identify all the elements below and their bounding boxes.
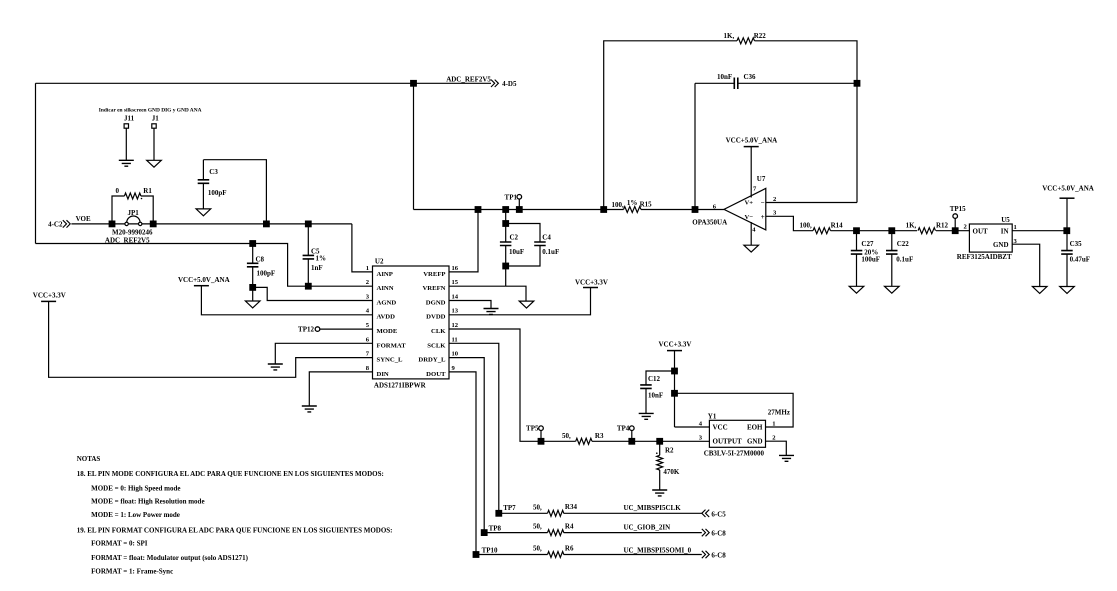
wire: vertical from top wire to reference rail bbox=[413, 83, 415, 209]
node: TP8 bbox=[481, 529, 488, 536]
svg-text:1: 1 bbox=[1014, 224, 1017, 231]
node: C5 bottom on AINN wire bbox=[305, 283, 312, 290]
node: C2/C4 bottom join bbox=[502, 263, 509, 270]
pin 2 inverting input wire bbox=[766, 202, 857, 204]
wire: VCC to Y1 pin 4 bbox=[674, 351, 676, 427]
node: TP10 bbox=[473, 551, 480, 558]
svg-text:1%: 1% bbox=[627, 199, 638, 207]
pin 1 IN wire bbox=[1012, 230, 1067, 232]
svg-text:4-C2: 4-C2 bbox=[48, 220, 63, 228]
svg-text:TP1: TP1 bbox=[505, 194, 518, 202]
svg-text:1nF: 1nF bbox=[311, 264, 323, 272]
node: R22/R15 junction bbox=[600, 206, 607, 213]
ground for C12 bbox=[639, 413, 654, 419]
resistor R3 50 bbox=[576, 438, 592, 444]
svg-text:50,: 50, bbox=[533, 545, 542, 553]
svg-text:MODE = 1: Low Power mode: MODE = 1: Low Power mode bbox=[91, 511, 180, 519]
svg-text:J11: J11 bbox=[124, 114, 135, 122]
ground for C27 bbox=[849, 286, 864, 293]
wire: VOE net horizontal bbox=[71, 223, 352, 225]
svg-text:VCC+5.0V_ANA: VCC+5.0V_ANA bbox=[726, 137, 778, 145]
svg-text:DGND: DGND bbox=[426, 300, 446, 307]
test point TP1 bbox=[517, 195, 522, 200]
svg-text:1K,: 1K, bbox=[906, 222, 917, 230]
resistor R4 50 bbox=[548, 530, 564, 536]
svg-text:15: 15 bbox=[452, 279, 459, 286]
svg-text:V+: V+ bbox=[745, 200, 754, 207]
node: TP4 tap on CLK wire bbox=[628, 438, 635, 445]
svg-text:DIN: DIN bbox=[377, 371, 389, 378]
svg-text:C12: C12 bbox=[648, 375, 661, 383]
svg-text:CB3LV-5I-27M0000: CB3LV-5I-27M0000 bbox=[704, 449, 765, 457]
node: VREFP tap on reference rail bbox=[475, 206, 482, 213]
svg-text:GND: GND bbox=[747, 438, 763, 446]
wire: SCLK to UC_MIBSPI5CLK bbox=[449, 343, 702, 513]
svg-text:TP12: TP12 bbox=[298, 326, 314, 334]
svg-text:R6: R6 bbox=[565, 545, 574, 553]
ground for VREFN bbox=[519, 301, 534, 308]
svg-text:470K: 470K bbox=[663, 468, 680, 476]
svg-text:50,: 50, bbox=[533, 523, 542, 531]
wire: VREFN to ground bbox=[506, 286, 526, 301]
svg-text:100,: 100, bbox=[800, 222, 813, 230]
svg-text:SYNC_L: SYNC_L bbox=[377, 357, 404, 364]
node: EOH tap on VCC stem bbox=[671, 390, 678, 397]
ground (GND DIG) for J11 bbox=[119, 160, 134, 166]
svg-text:−: − bbox=[761, 199, 765, 207]
node: TP5 tap on CLK wire bbox=[538, 438, 545, 445]
svg-text:100,: 100, bbox=[612, 201, 625, 209]
svg-text:TP5: TP5 bbox=[526, 425, 539, 433]
svg-text:DVDD: DVDD bbox=[426, 314, 445, 321]
svg-text:UC_GIOB_2IN: UC_GIOB_2IN bbox=[624, 524, 671, 532]
svg-text:10nF: 10nF bbox=[717, 73, 732, 81]
svg-text:C35: C35 bbox=[1070, 240, 1083, 248]
svg-text:U2: U2 bbox=[375, 258, 384, 266]
svg-text:13: 13 bbox=[452, 308, 459, 315]
node: C22 tap bbox=[888, 227, 895, 234]
node: R2 tap on CLK wire bbox=[656, 438, 663, 445]
op-amp U7 OPA350UA bbox=[724, 188, 766, 230]
svg-text:0.47uF: 0.47uF bbox=[1070, 256, 1090, 264]
svg-text:MODE: MODE bbox=[377, 328, 398, 335]
svg-text:100uF: 100uF bbox=[861, 255, 880, 263]
node: C2/C4 tap on reference rail bbox=[502, 206, 509, 213]
svg-text:C2: C2 bbox=[510, 233, 519, 241]
svg-text:VCC+3.3V: VCC+3.3V bbox=[33, 292, 66, 300]
IC U2 ADS1271IBPWR bbox=[373, 266, 450, 379]
svg-text:6-C5: 6-C5 bbox=[711, 510, 726, 518]
wire: VREFN bbox=[449, 285, 506, 287]
svg-text:18. EL PIN MODE CONFIGURA EL A: 18. EL PIN MODE CONFIGURA EL ADC PARA QU… bbox=[77, 470, 384, 478]
svg-text:TP10: TP10 bbox=[482, 547, 498, 555]
wire: DRDY_L to UC_GIOB_2IN bbox=[449, 358, 702, 533]
ground for C35 bbox=[1060, 287, 1075, 294]
svg-text:FORMAT = 0: SPI: FORMAT = 0: SPI bbox=[91, 540, 148, 548]
resistor R6 50 bbox=[548, 552, 564, 558]
test point TP5 bbox=[539, 426, 544, 431]
svg-text:R14: R14 bbox=[831, 222, 844, 230]
svg-text:C4: C4 bbox=[542, 233, 551, 241]
svg-text:TP7: TP7 bbox=[503, 504, 516, 512]
svg-text:11: 11 bbox=[452, 336, 458, 343]
resistor R12 1K bbox=[918, 228, 936, 234]
svg-text:1: 1 bbox=[772, 421, 775, 428]
svg-text:DOUT: DOUT bbox=[426, 371, 446, 378]
svg-text:10nF: 10nF bbox=[648, 391, 663, 399]
svg-text:C3: C3 bbox=[209, 168, 218, 176]
svg-text:U5: U5 bbox=[1001, 216, 1010, 224]
svg-text:R22: R22 bbox=[754, 32, 767, 40]
svg-text:1%: 1% bbox=[316, 255, 327, 263]
svg-text:GND: GND bbox=[993, 241, 1009, 249]
svg-text:OUTPUT: OUTPUT bbox=[713, 438, 743, 446]
svg-text:EOH: EOH bbox=[747, 424, 763, 432]
svg-text:10uF: 10uF bbox=[509, 248, 524, 256]
wire: SYNC_L to VCC+3.3V bbox=[49, 301, 373, 377]
svg-text:SCLK: SCLK bbox=[427, 342, 446, 349]
svg-text:100pF: 100pF bbox=[257, 270, 276, 278]
svg-text:OUT: OUT bbox=[973, 227, 989, 235]
wire: DVDD to VCC+3.3V bbox=[449, 288, 591, 315]
svg-text:R15: R15 bbox=[640, 201, 653, 209]
svg-text:VOE: VOE bbox=[76, 215, 91, 223]
test point TP4 bbox=[630, 426, 635, 431]
ground for R2 bbox=[652, 490, 667, 496]
svg-text:TP8: TP8 bbox=[489, 524, 502, 532]
svg-text:R3: R3 bbox=[595, 432, 604, 440]
svg-text:CLK: CLK bbox=[431, 328, 446, 335]
test point TP15 bbox=[953, 214, 958, 219]
svg-text:TP15: TP15 bbox=[950, 205, 966, 213]
svg-text:AGND: AGND bbox=[377, 300, 397, 307]
node: C27 tap bbox=[853, 227, 860, 234]
svg-text:VREFP: VREFP bbox=[423, 271, 445, 278]
wire: DIN to ground bbox=[309, 372, 372, 406]
wire: C8 to AGND pin bbox=[253, 287, 373, 300]
capacitor C35 0.47uF bbox=[1066, 231, 1068, 287]
pin 6 output wire bbox=[695, 209, 724, 211]
wire: EOH net bbox=[675, 393, 794, 427]
svg-text:1: 1 bbox=[366, 265, 369, 272]
svg-text:DRDY_L: DRDY_L bbox=[418, 357, 446, 364]
svg-text:VREFN: VREFN bbox=[422, 285, 445, 292]
svg-text:R4: R4 bbox=[565, 523, 574, 531]
node: ADC_REF2V5 tap on top wire bbox=[410, 80, 417, 87]
wire: CLK net to oscillator bbox=[449, 329, 709, 441]
svg-text:16: 16 bbox=[452, 265, 459, 272]
node: TP1 tap on reference rail bbox=[516, 206, 523, 213]
svg-text:ADS1271IBPWR: ADS1271IBPWR bbox=[374, 381, 427, 389]
pin 3 non-inverting input wire bbox=[766, 216, 813, 230]
capacitor C12 10nF bbox=[646, 371, 675, 413]
wire: left vertical of ADC_REF2V5 net bbox=[35, 83, 37, 243]
svg-text:FORMAT = float: Modulator outp: FORMAT = float: Modulator output (solo A… bbox=[91, 554, 248, 562]
wire: lower ADC_REF2V5 to AINN bbox=[36, 244, 373, 287]
svg-text:VCC+5.0V_ANA: VCC+5.0V_ANA bbox=[1042, 185, 1094, 193]
wire: MODE pin bbox=[320, 328, 373, 330]
svg-text:VCC+5.0V_ANA: VCC+5.0V_ANA bbox=[178, 276, 230, 284]
svg-text:100pF: 100pF bbox=[208, 189, 227, 197]
svg-text:VCC+3.3V: VCC+3.3V bbox=[575, 279, 608, 287]
svg-text:OPA350UA: OPA350UA bbox=[692, 218, 727, 226]
svg-text:AINP: AINP bbox=[377, 271, 393, 278]
svg-text:12: 12 bbox=[452, 322, 459, 329]
svg-text:0: 0 bbox=[116, 187, 120, 195]
node: C3 branch on VOE wire bbox=[263, 221, 270, 228]
svg-text:50,: 50, bbox=[533, 503, 542, 511]
svg-text:Indicar en silkscreen GND DIG: Indicar en silkscreen GND DIG y GND ANA bbox=[99, 107, 202, 113]
svg-text:C8: C8 bbox=[256, 256, 265, 264]
svg-text:VCC: VCC bbox=[713, 424, 728, 432]
resistor R34 50 bbox=[548, 510, 564, 516]
wire: R22 feedback loop bbox=[604, 41, 857, 210]
ground for Y1 bbox=[779, 455, 794, 461]
ground for U5 GND bbox=[1032, 287, 1047, 294]
ground for DGND bbox=[484, 309, 499, 315]
capacitor C4 0.1uF bbox=[506, 224, 540, 267]
capacitor C2 10uF bbox=[505, 210, 507, 287]
svg-text:MODE = 0: High Speed mode: MODE = 0: High Speed mode bbox=[91, 484, 180, 492]
node: C8 top on ADC_REF2V5 wire bbox=[249, 240, 256, 247]
svg-text:6-C8: 6-C8 bbox=[711, 530, 726, 538]
node: C12 tap on VCC stem bbox=[671, 368, 678, 375]
svg-text:UC_MIBSPI5SOMI_0: UC_MIBSPI5SOMI_0 bbox=[624, 546, 692, 554]
svg-text:R1: R1 bbox=[143, 187, 152, 195]
ground for op-amp V- bbox=[744, 245, 759, 252]
svg-text:VCC+3.3V: VCC+3.3V bbox=[659, 341, 692, 349]
ground below C8 bbox=[245, 301, 260, 308]
node: C2/C4 top split bbox=[502, 220, 509, 227]
wire: top horizontal ADC_REF2V5 net bbox=[36, 82, 492, 84]
svg-text:FORMAT = 1: Frame-Sync: FORMAT = 1: Frame-Sync bbox=[91, 567, 173, 575]
svg-text:TP4: TP4 bbox=[617, 425, 630, 433]
node: TP7 bbox=[495, 510, 502, 517]
resistor R14 100 bbox=[813, 228, 831, 234]
wire: DOUT to UC_MIBSPI5SOMI_0 bbox=[449, 372, 702, 555]
off-page connector 4-D5 (ADC_REF2V5) bbox=[491, 80, 498, 87]
svg-text:19. EL PIN FORMAT CONFIGURA EL: 19. EL PIN FORMAT CONFIGURA EL ADC PARA … bbox=[77, 527, 393, 535]
svg-text:REF3125AIDBZT: REF3125AIDBZT bbox=[957, 253, 1012, 261]
svg-text:IN: IN bbox=[1001, 227, 1009, 235]
svg-text:0.1uF: 0.1uF bbox=[896, 255, 913, 263]
svg-text:+: + bbox=[761, 213, 765, 221]
svg-text:27MHz: 27MHz bbox=[768, 409, 790, 417]
pin 3 GND wire bbox=[1012, 244, 1039, 286]
ground for DIN bbox=[302, 406, 317, 412]
node: C8 bottom / AGND bbox=[249, 284, 256, 291]
node: U5 IN / C35 / VCC bbox=[1063, 227, 1070, 234]
svg-text:V−: V− bbox=[745, 214, 754, 221]
oscillator Y1 CB3LV-5I-27M0000 bbox=[709, 420, 765, 447]
resistor R15 100 1% bbox=[624, 207, 642, 213]
wire: reference rail bbox=[414, 209, 696, 211]
wire: down to AINP bbox=[352, 224, 373, 272]
ground (GND ANA) for J1 bbox=[147, 160, 162, 167]
node: R22/C36 junction bbox=[854, 80, 861, 87]
node: C5 top on VOE wire bbox=[305, 221, 312, 228]
wire: R14 to U5 OUT bbox=[831, 230, 970, 232]
svg-text:14: 14 bbox=[452, 294, 459, 301]
svg-text:U7: U7 bbox=[757, 175, 766, 183]
node: JP1 left / R1 left bbox=[109, 221, 116, 228]
ground for C22 bbox=[885, 286, 900, 293]
svg-text:FORMAT: FORMAT bbox=[377, 342, 407, 349]
resistor R22 1K bbox=[737, 38, 755, 44]
wire: DGND to ground bbox=[449, 301, 491, 309]
svg-text:C22: C22 bbox=[897, 240, 910, 248]
svg-text:10: 10 bbox=[452, 351, 459, 358]
svg-text:Y1: Y1 bbox=[708, 413, 717, 421]
wire: VREFP up to reference rail bbox=[449, 210, 478, 272]
ground for C3 bbox=[196, 209, 211, 216]
pin 2 GND wire bbox=[766, 441, 787, 455]
wire: AVDD supply bbox=[201, 286, 372, 315]
capacitor C36 10nF bbox=[695, 82, 857, 84]
IC U5 REF3125AIDBZT bbox=[969, 224, 1012, 252]
svg-text:ADC_REF2V5: ADC_REF2V5 bbox=[446, 76, 491, 84]
svg-text:AVDD: AVDD bbox=[377, 314, 396, 321]
svg-text:M20-9990246: M20-9990246 bbox=[112, 228, 153, 236]
svg-text:NOTAS: NOTAS bbox=[77, 455, 101, 463]
svg-text:R2: R2 bbox=[665, 447, 674, 455]
svg-text:R34: R34 bbox=[565, 503, 578, 511]
pin 4 V- to ground bbox=[750, 222, 752, 245]
svg-text:0.1uF: 0.1uF bbox=[542, 248, 559, 256]
svg-text:6-C8: 6-C8 bbox=[711, 552, 726, 560]
svg-text:1K,: 1K, bbox=[724, 32, 735, 40]
svg-text:C27: C27 bbox=[861, 240, 874, 248]
svg-text:4-D5: 4-D5 bbox=[502, 80, 517, 88]
svg-text:AINN: AINN bbox=[377, 285, 394, 292]
wire: FORMAT to ground bbox=[275, 343, 372, 364]
svg-text:R12: R12 bbox=[936, 222, 949, 230]
capacitor C3 100pF bbox=[203, 160, 266, 224]
svg-text:C36: C36 bbox=[744, 73, 757, 81]
svg-text:MODE = float: High Resolution: MODE = float: High Resolution mode bbox=[91, 498, 204, 506]
svg-text:UC_MIBSPI5CLK: UC_MIBSPI5CLK bbox=[624, 504, 682, 512]
svg-text:50,: 50, bbox=[562, 432, 571, 440]
pin 7 V+ supply bbox=[750, 147, 752, 198]
test point TP12 bbox=[315, 327, 320, 332]
node: op-amp output / C36 bbox=[692, 206, 699, 213]
node: TP15 / U5 OUT bbox=[952, 227, 959, 234]
ground for FORMAT bbox=[268, 364, 283, 370]
node: JP1 right / R1 right bbox=[150, 221, 157, 228]
svg-text:J1: J1 bbox=[152, 114, 160, 122]
